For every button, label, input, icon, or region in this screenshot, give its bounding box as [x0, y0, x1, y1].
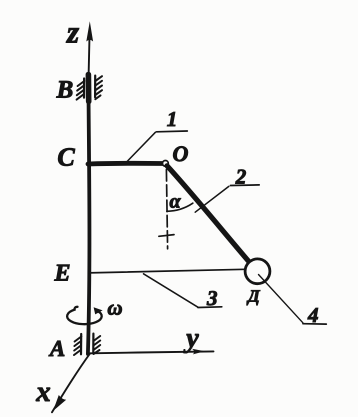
bearing A left wall [80, 334, 82, 354]
leader line 4 [259, 275, 303, 323]
axis z arrowhead [86, 21, 93, 41]
rod 2 (thick rod O-ball) [167, 166, 250, 262]
bearing A right hatch ticks [94, 336, 101, 354]
bearing A left hatch ticks [74, 337, 81, 356]
dashed vertical reference line below O [166, 170, 167, 249]
label 1 leader line [127, 132, 155, 161]
svg-text:ω: ω [107, 296, 122, 320]
shaft AB (thick vertical axis) [88, 74, 90, 354]
bearing B right hatch ticks [95, 76, 102, 99]
angle alpha arc [167, 203, 193, 211]
bearing B shaft thickening [86, 75, 92, 102]
ball D (sphere at end of rod) [245, 259, 270, 284]
svg-text:O: O [173, 141, 189, 166]
bearing B left hatch ticks [77, 81, 85, 100]
axis z thin upper segment [89, 32, 90, 75]
svg-text:4: 4 [307, 303, 319, 327]
svg-text:Д: Д [246, 287, 261, 306]
svg-text:E: E [53, 261, 70, 287]
axis y [90, 351, 214, 353]
svg-text:1: 1 [167, 107, 178, 131]
axis x [52, 354, 90, 413]
label 2 underline [230, 184, 259, 187]
svg-text:C: C [57, 143, 75, 172]
bar 1 (horizontal thick rod C-O) [88, 161, 163, 166]
svg-text:y: y [183, 323, 199, 354]
axis x arrowhead [53, 395, 66, 411]
axis y arrowhead [192, 349, 205, 355]
svg-text:B: B [56, 77, 74, 104]
svg-text:z: z [66, 15, 79, 50]
bearing B left wall [83, 79, 85, 98]
label 3 underline [198, 306, 222, 309]
label 4 underline [303, 323, 326, 325]
label 1 underline [157, 130, 188, 133]
bearing B right wall [94, 76, 96, 98]
svg-text:x: x [35, 376, 51, 408]
bearing A right wall [92, 334, 94, 354]
label 3 leader line [144, 274, 198, 307]
svg-text:α: α [169, 191, 181, 213]
tick mark on dashed line [159, 235, 174, 237]
pivot O [163, 161, 169, 167]
omega rotation arrow (ellipse arc) [67, 307, 102, 324]
string 3 (horizontal line E-ball) [89, 269, 246, 273]
omega arrowhead [94, 307, 103, 314]
label 2 leader line [195, 186, 229, 212]
svg-text:A: A [48, 336, 65, 361]
